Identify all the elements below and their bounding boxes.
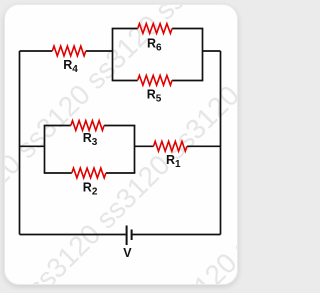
wire box2 bottom-right segment [106,172,135,174]
resistor R3 [71,121,104,131]
svg-text:R4: R4 [63,58,78,75]
svg-text:R6: R6 [147,36,162,53]
resistor R6 [138,24,172,34]
resistor R1 [154,141,188,151]
svg-text:R5: R5 [147,87,162,104]
box1 left edge wire [112,29,114,81]
resistor R4 [52,46,86,56]
resistor R2 [72,168,106,178]
battery V positive plate [126,226,128,246]
wire box1 top-right segment [172,28,203,30]
resistor R5 [138,75,172,85]
wire box1 bottom-left segment [112,80,138,82]
wire left rail [19,51,21,235]
box1 right edge wire [202,29,204,81]
wire middle stub from left rail [20,145,45,147]
box2 right edge wire [134,126,136,174]
wire R1 to right rail [187,145,221,147]
wire top-left segment [20,50,53,52]
wire box2 top-right segment [104,125,135,127]
wire box2 to R1 [135,145,154,147]
card background [4,4,238,285]
battery V negative plate [131,230,133,241]
wire bottom-right segment [133,234,221,236]
svg-text:V: V [123,246,132,260]
wire box1 to right rail [203,50,221,52]
svg-text:R3: R3 [83,131,98,148]
wire box1 bottom-right segment [172,80,203,82]
wire R4 to box1 [86,50,113,52]
svg-text:R1: R1 [166,153,181,170]
svg-text:R2: R2 [83,181,98,198]
box2 left edge wire [44,126,46,174]
wire bottom-left segment [20,234,126,236]
wire box2 top-left segment [44,125,71,127]
wire box2 bottom-left segment [44,172,72,174]
wire right rail [220,51,222,235]
wire box1 top-left segment [112,28,138,30]
